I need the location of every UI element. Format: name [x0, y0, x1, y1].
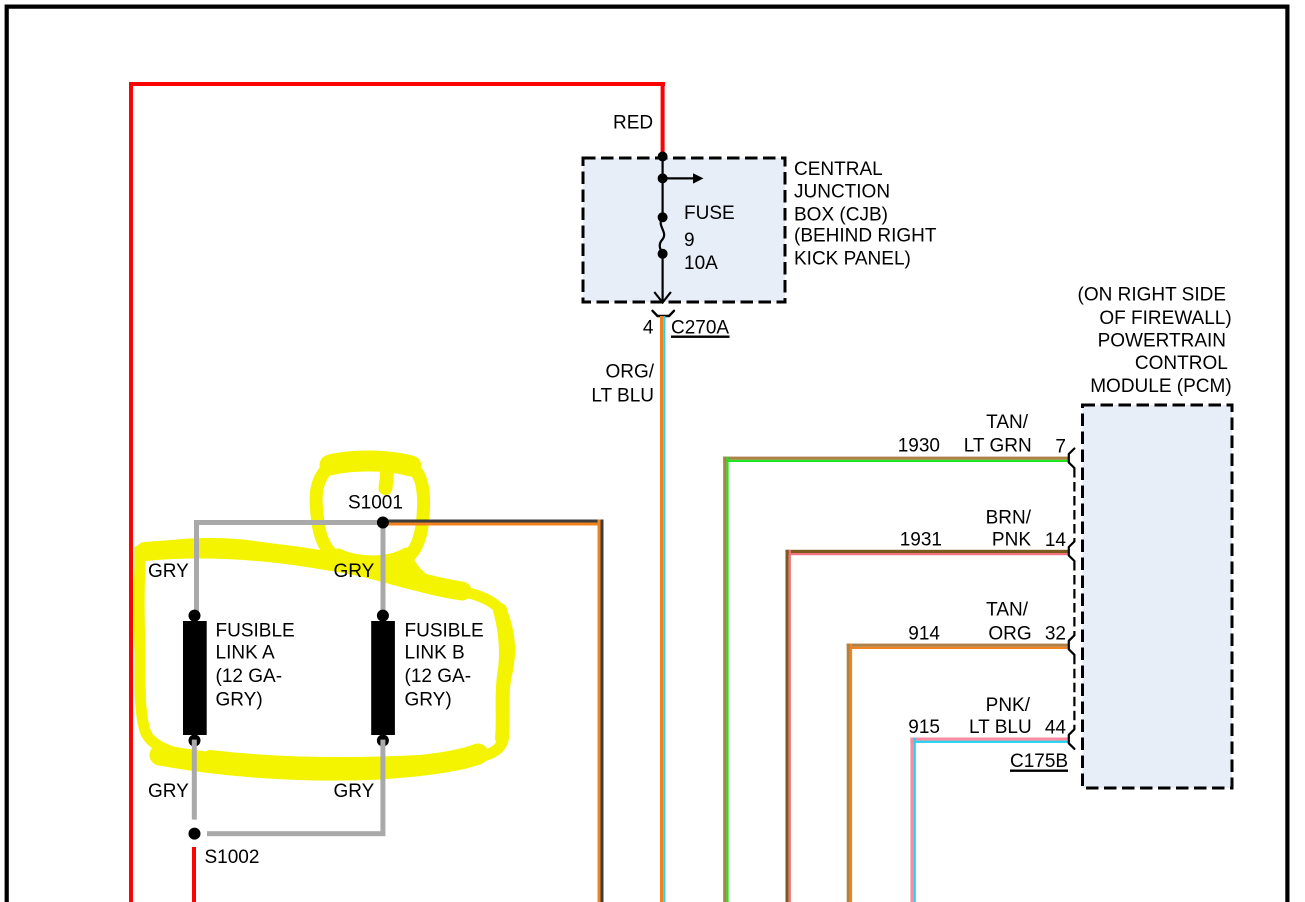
svg-text:BOX (CJB): BOX (CJB) — [794, 205, 888, 226]
fusible link A — [189, 610, 201, 622]
svg-text:GRY): GRY) — [216, 690, 263, 711]
highlighter ring top band — [330, 461, 411, 466]
wire 1930 TAN/LT GRN vertical — [723, 457, 726, 902]
svg-text:(ON RIGHT SIDE: (ON RIGHT SIDE — [1078, 285, 1227, 306]
CJB box — [583, 158, 785, 302]
svg-text:GRY: GRY — [148, 781, 189, 802]
svg-text:LINK A: LINK A — [216, 643, 275, 664]
wire: GRY middle vertical to link B — [381, 525, 386, 615]
connector C270A symbol — [653, 311, 675, 316]
arrow: feed to other circuits — [663, 177, 695, 179]
wire 1930 TAN/LT GRN horizontal — [723, 457, 1069, 460]
svg-text:FUSIBLE: FUSIBLE — [216, 621, 295, 642]
svg-text:7: 7 — [1055, 437, 1066, 458]
svg-text:10A: 10A — [684, 253, 718, 274]
splice S1001 — [377, 517, 389, 529]
svg-text:9: 9 — [684, 230, 695, 251]
wire: GRY below link B — [380, 740, 385, 834]
wire: GRY below link A — [192, 740, 197, 820]
wire 1931 BRN/PNK horizontal — [786, 550, 1070, 553]
svg-text:TAN/: TAN/ — [986, 600, 1029, 621]
svg-text:LT BLU: LT BLU — [591, 386, 654, 407]
svg-text:CENTRAL: CENTRAL — [794, 159, 883, 180]
highlighter ring lower-right merge — [405, 559, 426, 583]
splice S1002 — [189, 828, 201, 840]
svg-text:14: 14 — [1045, 530, 1067, 551]
svg-text:GRY: GRY — [334, 781, 375, 802]
svg-text:LT BLU: LT BLU — [969, 717, 1032, 738]
svg-text:GRY: GRY — [148, 561, 189, 582]
wire: red below S1002 — [192, 847, 196, 902]
highlighter blob top overdraw — [145, 549, 462, 591]
svg-text:ORG: ORG — [988, 624, 1031, 645]
svg-text:MODULE (PCM): MODULE (PCM) — [1090, 376, 1231, 397]
svg-text:JUNCTION: JUNCTION — [794, 182, 890, 203]
wire 915 PNK/LT BLU vertical — [910, 738, 913, 902]
highlighter ring bottom band — [338, 556, 407, 564]
pin 7 bracket — [1069, 449, 1075, 469]
wire: ORG/LT BLU vertical from C270A — [660, 316, 663, 902]
highlighter blob bottom inner overdraw — [210, 757, 420, 764]
highlighter ring around S1001 — [316, 462, 424, 569]
fuse 9 10A element — [658, 212, 668, 222]
wire: ORG/BLK from S1001 horizontal — [382, 520, 602, 523]
svg-text:915: 915 — [908, 717, 940, 738]
svg-text:FUSIBLE: FUSIBLE — [405, 621, 484, 642]
svg-text:44: 44 — [1045, 718, 1067, 739]
svg-text:PNK: PNK — [992, 530, 1031, 551]
wire: GRY left vertical to link A — [194, 520, 199, 615]
svg-text:S1001: S1001 — [348, 493, 403, 514]
wire 914 TAN/ORG horizontal — [847, 644, 1070, 647]
svg-text:(BEHIND RIGHT: (BEHIND RIGHT — [794, 226, 937, 247]
pin 44 bracket — [1069, 729, 1075, 749]
arrowhead at CJB exit — [654, 292, 671, 303]
svg-text:GRY): GRY) — [405, 690, 452, 711]
wire 915 PNK/LT BLU horizontal — [910, 738, 1069, 741]
svg-text:TAN/: TAN/ — [986, 412, 1029, 433]
highlighter blob around fusible links — [139, 544, 509, 773]
svg-text:POWERTRAIN: POWERTRAIN — [1098, 331, 1226, 352]
svg-text:PNK/: PNK/ — [986, 695, 1031, 716]
highlighter blob bottom overdraw — [160, 754, 478, 770]
svg-text:914: 914 — [908, 624, 940, 645]
wire: red drop into CJB — [661, 82, 665, 156]
PCM box — [1083, 405, 1233, 788]
wire: bus inside CJB — [661, 157, 663, 219]
svg-text:1930: 1930 — [898, 436, 940, 457]
svg-text:OF FIREWALL): OF FIREWALL) — [1099, 308, 1231, 329]
wire: red battery feed, top horizontal — [129, 82, 665, 86]
svg-text:(12 GA-: (12 GA- — [216, 666, 283, 687]
svg-text:GRY: GRY — [334, 561, 375, 582]
node: tap for arrow — [658, 173, 668, 183]
connector C175B dashed face — [1073, 468, 1075, 729]
fusible link B — [377, 610, 389, 622]
svg-text:ORG/: ORG/ — [605, 362, 654, 383]
wire 914 TAN/ORG vertical — [847, 644, 850, 902]
svg-text:KICK PANEL): KICK PANEL) — [794, 249, 911, 270]
svg-text:BRN/: BRN/ — [986, 508, 1032, 529]
svg-text:S1002: S1002 — [205, 847, 260, 868]
highlighter blob right overdraw — [500, 610, 506, 738]
wire: GRY bottom horizontal to S1002 — [207, 831, 385, 836]
wire: GRY top horizontal from S1001 — [194, 520, 383, 525]
node at CJB entry — [658, 152, 668, 162]
pin 32 bracket — [1069, 635, 1075, 655]
svg-text:C270A: C270A — [671, 318, 729, 339]
svg-text:CONTROL: CONTROL — [1135, 353, 1228, 374]
svg-text:1931: 1931 — [900, 530, 942, 551]
svg-text:32: 32 — [1045, 624, 1066, 645]
wire: red battery feed, left vertical — [129, 82, 133, 902]
svg-text:LT GRN: LT GRN — [964, 436, 1032, 457]
svg-text:4: 4 — [643, 318, 654, 339]
svg-text:C175B: C175B — [1010, 751, 1068, 772]
wire: fuse output with arrow — [661, 254, 663, 303]
highlighter ring pen tail — [386, 470, 388, 488]
svg-text:FUSE: FUSE — [684, 203, 735, 224]
svg-text:(12 GA-: (12 GA- — [405, 666, 472, 687]
wire 1931 BRN/PNK vertical — [786, 550, 789, 902]
svg-text:RED: RED — [613, 113, 653, 134]
wire: ORG/BLK vertical — [598, 520, 601, 902]
pin 14 bracket — [1069, 542, 1075, 562]
svg-text:LINK B: LINK B — [405, 643, 465, 664]
